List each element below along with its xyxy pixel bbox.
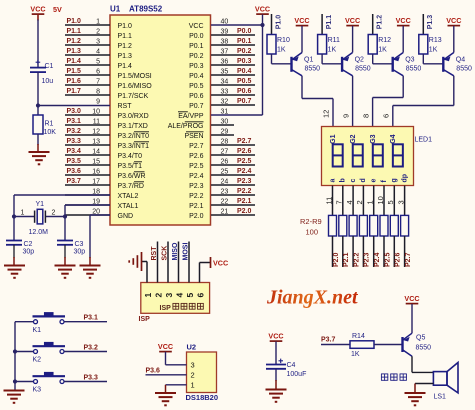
svg-text:P0.0: P0.0 (237, 28, 252, 35)
svg-text:6: 6 (196, 293, 206, 298)
svg-text:b: b (340, 178, 347, 182)
connector ISP pin numbers (143, 293, 206, 298)
svg-text:R13: R13 (429, 37, 442, 44)
svg-text:P0.7: P0.7 (237, 98, 252, 105)
svg-text:P2.0: P2.0 (237, 208, 252, 215)
wire R4 to P2.2 (353, 236, 360, 267)
wire R3 to P2.1 (343, 236, 350, 267)
wire U1 pin 19 (65, 198, 110, 205)
svg-text:2: 2 (191, 371, 195, 380)
svg-text:8550: 8550 (355, 66, 371, 73)
svg-text:P0.3: P0.3 (237, 58, 252, 65)
svg-text:6: 6 (96, 68, 100, 75)
svg-text:RST: RST (118, 103, 133, 110)
display LED1 digit glyphs (333, 144, 403, 166)
svg-text:P2.7: P2.7 (189, 143, 204, 150)
wire R11 to Q2 base (322, 54, 342, 64)
IC U1 designator label (110, 5, 163, 14)
svg-text:DS18B20: DS18B20 (186, 393, 219, 402)
ground (U1 GND) (80, 266, 101, 278)
svg-text:P0.4: P0.4 (237, 68, 252, 75)
wire button rail (14, 322, 16, 391)
wire VCC to Q3 emitter (402, 26, 404, 53)
svg-text:16: 16 (92, 168, 100, 175)
node P1.3 label (driver) (423, 14, 434, 35)
wire R1 to ground (37, 134, 39, 152)
svg-text:EA/VPP: EA/VPP (178, 113, 204, 120)
junction rail K3 (13, 379, 17, 383)
wire Y1 right lead (46, 216, 65, 218)
svg-text:P3.2: P3.2 (84, 345, 99, 352)
svg-text:P2.4: P2.4 (237, 168, 252, 175)
power VCC (C4) (268, 332, 283, 342)
svg-text:2: 2 (154, 293, 164, 298)
wire U1 pin 21 (211, 208, 255, 215)
svg-text:P1.5: P1.5 (67, 68, 82, 75)
svg-text:P1.1: P1.1 (326, 15, 333, 30)
wire U1 pin 23 (211, 188, 255, 195)
svg-text:P2.7: P2.7 (237, 138, 252, 145)
node P1.2 label (driver) (373, 14, 384, 35)
wire R10 to Q1 base (272, 54, 292, 64)
wire C1 to R1 (37, 72, 39, 115)
svg-text:P2.3: P2.3 (364, 252, 371, 267)
capacitor C4 (266, 359, 306, 378)
power VCC symbol 5V (30, 5, 62, 15)
wire VCC to Q4 emitter (453, 26, 455, 53)
svg-text:VCC: VCC (294, 16, 309, 25)
wire U1 pin 5 (65, 58, 110, 65)
svg-text:26: 26 (221, 158, 229, 165)
svg-text:1: 1 (21, 210, 25, 217)
switch K3 (33, 372, 66, 394)
svg-text:8550: 8550 (406, 66, 422, 73)
wire Q5 collector to buzzer (412, 356, 433, 372)
svg-text:P3.4/T0: P3.4/T0 (118, 153, 143, 160)
wire ISP pin 2 (157, 242, 159, 283)
wire K2 to P3.2 (64, 351, 107, 353)
svg-text:10: 10 (92, 108, 100, 115)
wire VCC to EA (262, 15, 264, 116)
node P1.0 label (driver) (272, 14, 283, 35)
svg-text:5: 5 (386, 200, 395, 204)
svg-text:RST: RST (151, 246, 158, 261)
connector ISP name label (139, 316, 151, 323)
capacitor C3 (57, 241, 85, 256)
svg-text:8550: 8550 (456, 66, 472, 73)
junction RST node (36, 103, 40, 107)
resistor R12 (368, 35, 391, 55)
wire U1 pin 30 (211, 118, 234, 125)
svg-text:P3.2/INT0: P3.2/INT0 (118, 133, 150, 140)
svg-text:MOSI: MOSI (183, 243, 190, 261)
resistor R2 (329, 215, 337, 236)
resistor R5 (359, 215, 367, 236)
svg-text:PSEN: PSEN (184, 133, 203, 140)
svg-text:34: 34 (221, 78, 229, 85)
resistor R13 (419, 35, 442, 55)
svg-text:R12: R12 (378, 37, 391, 44)
junction pin40/VCC (260, 23, 264, 27)
wire rail to K2 (15, 351, 34, 353)
resistor R1 (33, 115, 56, 136)
svg-text:P3.7/RD: P3.7/RD (118, 183, 144, 190)
wire U1 pin 16 (65, 168, 110, 175)
node P3.7 label (321, 337, 336, 344)
svg-text:P1.7: P1.7 (67, 88, 82, 95)
ground (C2) (4, 266, 25, 278)
ground (reset) (29, 152, 50, 164)
wire U1 pin 32 (211, 98, 255, 105)
svg-text:VCC: VCC (268, 332, 283, 341)
svg-text:e: e (371, 179, 378, 183)
svg-text:P0.5: P0.5 (237, 78, 252, 85)
svg-text:P3.1/TXD: P3.1/TXD (118, 123, 148, 130)
svg-text:10u: 10u (42, 78, 54, 85)
svg-text:P2.1: P2.1 (343, 252, 350, 267)
wire U1 pin 33 (211, 88, 255, 95)
svg-text:P2.2: P2.2 (189, 193, 204, 200)
svg-text:P0.6: P0.6 (189, 93, 204, 100)
svg-text:P3.6: P3.6 (67, 168, 82, 175)
wire R7 to P2.5 (384, 236, 391, 267)
svg-text:ALE/PROG: ALE/PROG (168, 123, 204, 130)
svg-text:10: 10 (376, 196, 385, 204)
svg-text:23: 23 (221, 188, 229, 195)
wire rail to K3 (15, 381, 34, 383)
svg-text:P3.6: P3.6 (146, 368, 161, 375)
svg-text:VCC: VCC (189, 23, 204, 30)
connector ISP body (141, 283, 210, 314)
svg-text:Q2: Q2 (355, 57, 364, 64)
wire U1 pin 26 (211, 158, 255, 165)
node SCK label (162, 246, 169, 261)
svg-text:3: 3 (396, 200, 405, 204)
svg-text:P0.1: P0.1 (237, 38, 252, 45)
wire Y1 to C3 (64, 217, 66, 241)
wire U1 pin 22 (211, 198, 255, 205)
logo JiangX.net (266, 287, 359, 309)
svg-text:P3.3: P3.3 (84, 375, 99, 382)
ground (ISP) rotated (129, 252, 141, 271)
power VCC (Q2) (345, 16, 360, 26)
wire U1 pin 40 VCC (211, 18, 263, 25)
ground (C3) (55, 266, 76, 278)
display LED1 segment letters (329, 174, 408, 183)
wire U1 pin 11 (65, 118, 110, 125)
buzzer caption (381, 374, 407, 381)
wire U1 pin 13 (65, 138, 110, 145)
svg-text:37: 37 (221, 48, 229, 55)
svg-text:P0.2: P0.2 (189, 53, 204, 60)
svg-text:C1: C1 (45, 63, 54, 70)
power VCC symbol (EA rail) (255, 5, 270, 15)
svg-text:P1.1: P1.1 (118, 33, 133, 40)
wire R5 to P2.3 (363, 236, 370, 267)
svg-text:LED1: LED1 (415, 137, 433, 144)
svg-text:P2.0: P2.0 (333, 252, 340, 267)
transistor Q3 (393, 53, 422, 76)
svg-text:U1: U1 (110, 5, 121, 14)
svg-text:1K: 1K (378, 47, 387, 54)
node RST label (151, 246, 158, 261)
connector ISP caption (160, 303, 204, 312)
display LED1 body (322, 127, 414, 186)
svg-text:JiangX.net: JiangX.net (266, 287, 359, 309)
ground (U2) (155, 393, 176, 405)
svg-text:dp: dp (401, 174, 408, 183)
svg-text:5: 5 (96, 58, 100, 65)
svg-text:R2-R9: R2-R9 (300, 217, 322, 226)
svg-text:3: 3 (164, 293, 174, 298)
wire VCC to U2 pin 3 (166, 352, 187, 365)
resistor R6 (370, 215, 378, 236)
wire Q3 collector to LED1 (373, 76, 404, 127)
svg-text:33: 33 (221, 88, 229, 95)
svg-text:1K: 1K (429, 47, 438, 54)
svg-text:P0.2: P0.2 (237, 48, 252, 55)
svg-text:P1.4: P1.4 (118, 63, 133, 70)
svg-text:12: 12 (92, 128, 100, 135)
svg-text:GND: GND (118, 213, 134, 220)
IC U2 designator (187, 343, 197, 352)
wire C3 to ground (64, 245, 66, 266)
svg-text:6: 6 (382, 114, 391, 118)
wire U1 pin 1 (65, 18, 110, 25)
wire Q2 collector to LED1 (352, 76, 354, 127)
svg-text:30p: 30p (23, 249, 35, 256)
wire U1 pin 8 (65, 88, 110, 95)
capacitor C1 (30, 60, 54, 85)
svg-text:P2.6: P2.6 (395, 252, 402, 267)
wire U1 pin 14 (65, 148, 110, 155)
crystal Y1 (21, 201, 56, 236)
svg-text:100: 100 (306, 228, 319, 237)
svg-text:P2.0: P2.0 (189, 213, 204, 220)
svg-text:P1.0: P1.0 (275, 15, 282, 30)
svg-text:30: 30 (221, 118, 229, 125)
svg-text:1: 1 (143, 293, 153, 298)
power VCC (Q3) (396, 16, 411, 26)
svg-text:K2: K2 (33, 357, 42, 364)
svg-text:R1: R1 (45, 121, 54, 128)
wire VCC to C1 (37, 15, 39, 68)
power VCC (Q5) (404, 294, 419, 304)
wire U1 pin 2 (65, 28, 110, 35)
transistor Q5 (403, 333, 432, 356)
wire K1 to P3.1 (64, 321, 107, 323)
svg-text:XTAL2: XTAL2 (118, 193, 139, 200)
display LED1 digit labels G1-G4 (330, 134, 397, 143)
svg-text:SCK: SCK (162, 246, 169, 261)
wire U1 pin 10 (65, 108, 110, 115)
wire LED1 segment dp (396, 186, 405, 216)
svg-text:P1.7/SCK: P1.7/SCK (118, 93, 149, 100)
svg-text:G4: G4 (390, 134, 397, 143)
wire U1 pin 3 (65, 38, 110, 45)
svg-text:VCC: VCC (213, 259, 228, 268)
svg-text:P0.4: P0.4 (189, 73, 204, 80)
svg-text:31: 31 (221, 108, 229, 115)
svg-text:9: 9 (96, 98, 100, 105)
svg-text:P0.3: P0.3 (189, 63, 204, 70)
resistor R3 (339, 215, 347, 236)
switch K2 (33, 342, 66, 364)
power VCC (Q4) (446, 16, 461, 26)
wire R14 to Q5 base (374, 344, 403, 346)
node MISO label (172, 242, 179, 260)
wire U1 pin 9 number (96, 98, 100, 105)
svg-text:VCC: VCC (30, 5, 45, 14)
svg-text:30p: 30p (74, 249, 86, 256)
svg-text:P1.2: P1.2 (67, 38, 82, 45)
junction rail K2 (13, 349, 17, 353)
junction XTAL1 node (63, 214, 67, 218)
transistor Q2 (342, 53, 371, 76)
svg-text:P1.0: P1.0 (67, 18, 82, 25)
wire U1 pin 4 (65, 48, 110, 55)
svg-text:P2.6: P2.6 (237, 148, 252, 155)
svg-text:LS1: LS1 (434, 394, 447, 401)
svg-text:P2.4: P2.4 (189, 173, 204, 180)
svg-text:P3.1: P3.1 (84, 315, 99, 322)
power VCC (ISP) sideways (211, 257, 229, 268)
wire U1 pin 36 (211, 58, 255, 65)
svg-text:10K: 10K (44, 129, 57, 136)
capacitor C2 (6, 241, 34, 256)
wire U1 pin 27 (211, 148, 255, 155)
svg-text:Q4: Q4 (456, 57, 465, 64)
svg-text:1: 1 (96, 18, 100, 25)
wire U1 pin 29 (211, 128, 234, 135)
resistor R8 (390, 215, 398, 236)
svg-text:P3.7: P3.7 (67, 178, 82, 185)
wire U1 pin 37 (211, 48, 255, 55)
wire U1 pin 25 (211, 168, 255, 175)
svg-text:40: 40 (221, 18, 229, 25)
svg-text:13: 13 (92, 138, 100, 145)
wire U1 pin 31 EA (211, 108, 263, 115)
svg-text:14: 14 (92, 148, 100, 155)
svg-text:4: 4 (175, 293, 185, 298)
svg-text:P1.3: P1.3 (427, 15, 434, 30)
svg-text:5V: 5V (53, 5, 62, 14)
svg-text:9: 9 (342, 114, 351, 118)
wire U1 pin 20 (65, 208, 110, 215)
wire P3.7 to R14 (321, 344, 350, 346)
svg-text:P0.7: P0.7 (189, 103, 204, 110)
power VCC (Q1) (294, 16, 309, 26)
svg-text:35: 35 (221, 68, 229, 75)
wire buzzer to ground (415, 384, 433, 394)
svg-text:P2.6: P2.6 (189, 153, 204, 160)
svg-text:28: 28 (221, 138, 229, 145)
wire XTAL1 to Y1 (65, 205, 110, 217)
wire ISP pin 6 (200, 263, 211, 283)
svg-text:P1.3: P1.3 (67, 48, 82, 55)
svg-text:P3.2: P3.2 (67, 128, 82, 135)
svg-text:P1.6: P1.6 (67, 78, 82, 85)
svg-text:Q3: Q3 (405, 57, 414, 64)
wire U1 pin 6 (65, 68, 110, 75)
svg-text:VCC: VCC (345, 16, 360, 25)
wire U1 pin 35 (211, 68, 255, 75)
resistor R14 (350, 333, 374, 358)
svg-text:P3.7: P3.7 (321, 337, 336, 344)
svg-text:P1.2: P1.2 (377, 15, 384, 30)
svg-text:P2.4: P2.4 (374, 252, 381, 267)
wire K3 to P3.3 (64, 381, 107, 383)
IC U1 left pin name texts (118, 23, 153, 220)
svg-text:1K: 1K (277, 47, 286, 54)
junction XTAL2 node (12, 214, 16, 218)
transistor Q4 (443, 53, 472, 76)
svg-text:4: 4 (345, 200, 354, 204)
svg-text:P1.5/MOSI: P1.5/MOSI (118, 73, 152, 80)
wire rail to K1 (15, 321, 34, 323)
svg-text:P2.5: P2.5 (189, 163, 204, 170)
svg-text:AT89S52: AT89S52 (129, 5, 163, 14)
svg-text:P3.1: P3.1 (67, 118, 82, 125)
svg-text:Q1: Q1 (304, 57, 313, 64)
wire U1 pin 7 (65, 78, 110, 85)
svg-text:11: 11 (93, 118, 100, 125)
display LED1 top pin numbers (322, 110, 391, 118)
wire U1 GND pin 20 (90, 215, 110, 266)
node P3.1 label (84, 315, 99, 322)
wire U1 pin 18 (65, 188, 110, 195)
svg-text:P0.6: P0.6 (237, 88, 252, 95)
resistor R11 (318, 35, 340, 55)
svg-text:P3.6/WR: P3.6/WR (118, 173, 146, 180)
svg-text:d: d (360, 178, 367, 182)
svg-text:G2: G2 (350, 134, 357, 143)
svg-text:11: 11 (324, 197, 333, 205)
svg-text:12: 12 (322, 110, 331, 118)
svg-text:3: 3 (191, 360, 195, 369)
wire U1 pin 24 (211, 178, 255, 185)
svg-text:C3: C3 (75, 241, 84, 248)
svg-text:P1.0: P1.0 (118, 23, 133, 30)
svg-text:36: 36 (221, 58, 229, 65)
svg-text:R14: R14 (352, 333, 365, 340)
svg-text:VCC: VCC (396, 16, 411, 25)
switch K1 (33, 312, 66, 334)
IC U2 pin numbers (191, 360, 195, 389)
wire U1 pin 34 (211, 78, 255, 85)
wire RST node to U1 pin 9 (38, 105, 110, 107)
svg-text:100uF: 100uF (287, 371, 307, 378)
resistor R4 (349, 215, 357, 236)
svg-text:2: 2 (96, 28, 100, 35)
svg-text:P3.5: P3.5 (67, 158, 82, 165)
svg-text:32: 32 (221, 98, 229, 105)
svg-text:P2.5: P2.5 (384, 252, 391, 267)
node P3.2 label (84, 345, 99, 352)
svg-text:15: 15 (92, 158, 100, 165)
svg-text:Q5: Q5 (416, 335, 425, 342)
svg-text:P3.4: P3.4 (67, 148, 82, 155)
svg-text:7: 7 (335, 200, 344, 204)
wire U1 pin 17 (65, 178, 110, 185)
svg-text:ISP: ISP (160, 305, 172, 312)
svg-text:P2.5: P2.5 (237, 158, 252, 165)
wire LED1 segment e (366, 186, 375, 216)
wire Q4 collector to LED1 (393, 76, 454, 127)
IC U1 right pin name texts (168, 23, 204, 220)
IC U2 name label (186, 393, 219, 402)
ground (buttons) (4, 391, 25, 403)
